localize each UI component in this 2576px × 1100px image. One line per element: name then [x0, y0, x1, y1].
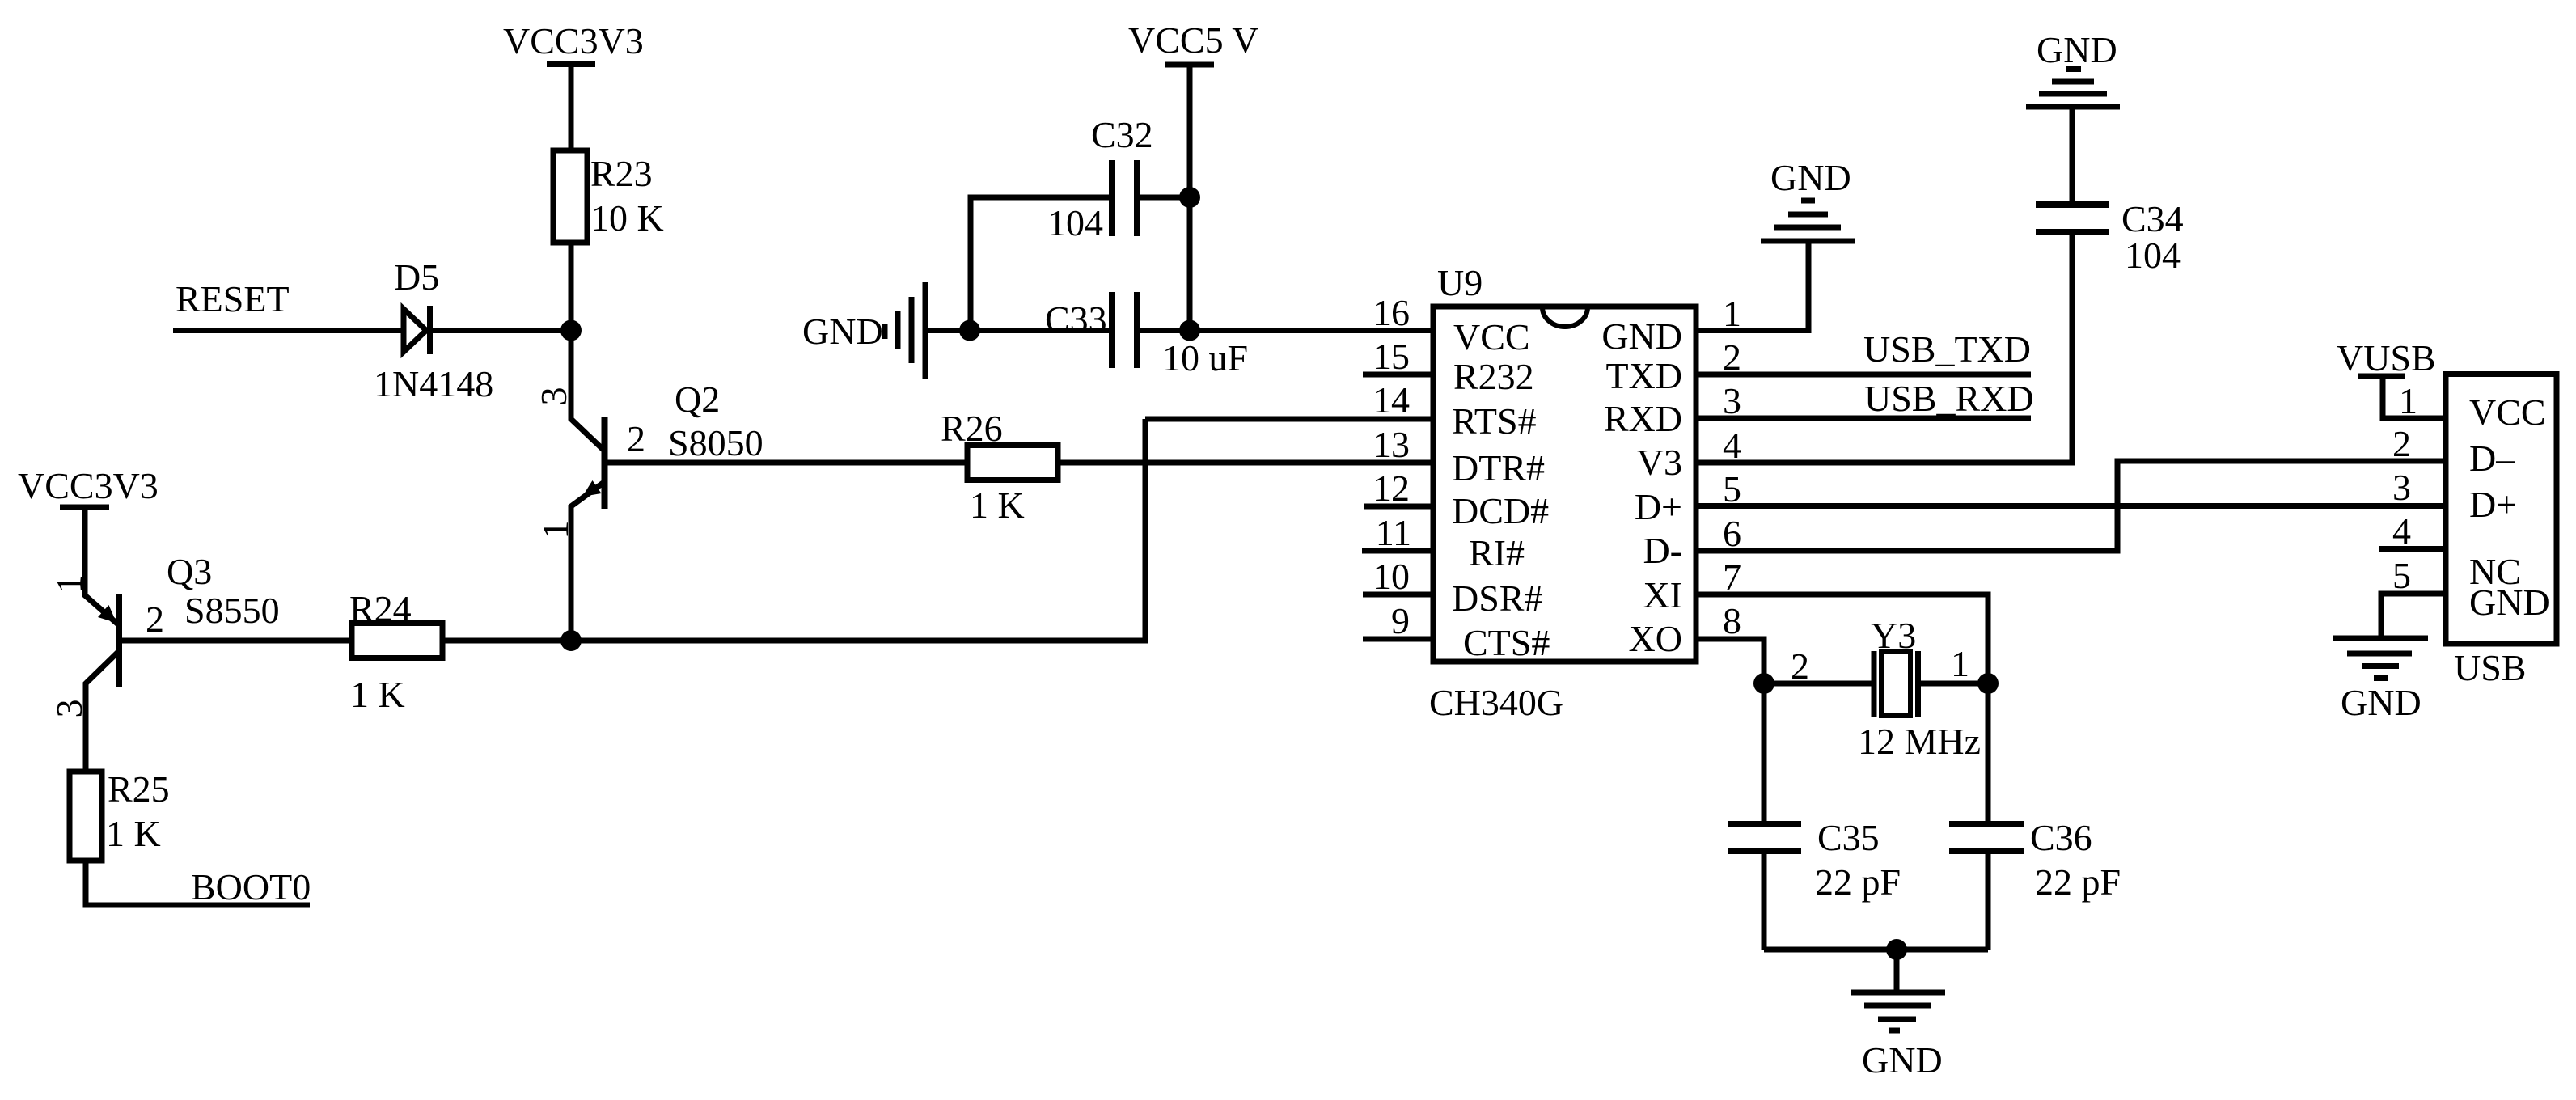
wire bottom rail: [1764, 947, 1988, 953]
wire C35 down: [1762, 851, 1767, 950]
wire GND to C33: [925, 328, 1110, 333]
capacitor C33 10 uF: [1045, 292, 1248, 379]
svg-text:VCC: VCC: [2469, 391, 2546, 433]
svg-text:1: 1: [2399, 380, 2417, 421]
pin 4 wire V3 to C34: [1696, 235, 2072, 463]
svg-text:USB_TXD: USB_TXD: [1863, 328, 2031, 370]
node XO/crystal junction: [1753, 673, 1774, 694]
wire VCC5V down: [1187, 65, 1193, 197]
svg-text:3: 3: [49, 700, 90, 718]
svg-text:R24: R24: [349, 588, 412, 629]
resistor R26 1 K: [941, 408, 1058, 526]
svg-text:GND: GND: [1862, 1039, 1943, 1081]
capacitor C32 104: [1047, 114, 1153, 243]
svg-text:D5: D5: [394, 256, 439, 298]
svg-text:USB: USB: [2454, 647, 2526, 688]
svg-text:RI#: RI#: [1469, 532, 1525, 573]
svg-text:U9: U9: [1437, 262, 1483, 303]
pin 4 stub NC: [2379, 546, 2443, 552]
power VCC3V3 (Q3): [18, 465, 159, 507]
svg-text:2: 2: [627, 418, 645, 459]
wire Q2 base to R26: [607, 460, 967, 466]
wire crystal right: [1921, 681, 1988, 687]
svg-text:GND: GND: [1770, 157, 1851, 198]
svg-text:CTS#: CTS#: [1463, 622, 1550, 663]
svg-text:BOOT0: BOOT0: [191, 866, 311, 907]
node GND/C32 junction: [959, 320, 980, 341]
svg-text:D–: D–: [2469, 438, 2515, 479]
svg-text:GND: GND: [2037, 29, 2117, 70]
svg-text:2: 2: [146, 599, 164, 640]
svg-text:13: 13: [1373, 424, 1410, 465]
diode D5 1N4148: [374, 256, 493, 404]
wire crystal left: [1764, 681, 1872, 687]
pin 2 wire TXD: [1696, 372, 2031, 378]
wire crystal to C36: [1986, 683, 1991, 824]
svg-text:R232: R232: [1453, 356, 1534, 397]
svg-text:GND: GND: [1601, 315, 1682, 357]
svg-text:8: 8: [1723, 600, 1741, 641]
ground GND (pin1): [1761, 157, 1855, 241]
svg-text:RXD: RXD: [1604, 398, 1682, 439]
svg-text:22 pF: 22 pF: [1815, 861, 1901, 903]
capacitor C35 22 pF: [1728, 817, 1901, 903]
svg-text:2: 2: [1723, 336, 1741, 378]
pin 6 wire D- to USB: [1696, 461, 2443, 551]
svg-text:10 uF: 10 uF: [1162, 337, 1248, 379]
pin 5 wire D+ to USB: [1696, 503, 2443, 509]
USB connector J: [2446, 374, 2557, 689]
resistor R25 1 K: [70, 768, 170, 861]
wire C32 right to junction: [1140, 195, 1190, 201]
svg-text:3: 3: [2392, 467, 2411, 508]
svg-text:XO: XO: [1629, 618, 1682, 659]
svg-text:16: 16: [1373, 292, 1410, 333]
power VCC3V3 (top): [503, 20, 644, 65]
pin 8 wire XO: [1696, 639, 1764, 683]
svg-text:R25: R25: [108, 768, 170, 810]
svg-text:XI: XI: [1643, 574, 1682, 616]
svg-text:104: 104: [1047, 202, 1103, 243]
svg-text:15: 15: [1373, 336, 1410, 377]
svg-text:TXD: TXD: [1605, 355, 1682, 396]
svg-text:3: 3: [1723, 380, 1741, 421]
transistor Q2 S8050: [533, 331, 763, 641]
svg-text:VCC5 V: VCC5 V: [1128, 19, 1258, 61]
wire crystal to C35: [1762, 683, 1767, 824]
ground GND (bottom): [1851, 992, 1945, 1081]
svg-text:1 K: 1 K: [350, 674, 405, 715]
node Q2 emitter / R24 junction: [560, 630, 582, 651]
resistor R24 1 K: [349, 588, 442, 715]
pin 11 stub: [1362, 548, 1433, 554]
pin 3 wire RXD: [1696, 416, 2031, 421]
svg-text:D-: D-: [1643, 530, 1682, 571]
svg-text:DSR#: DSR#: [1452, 577, 1542, 619]
svg-text:S8050: S8050: [668, 422, 763, 463]
wire C33 to pin16: [1140, 328, 1433, 333]
transistor Q3 S8550: [49, 507, 280, 772]
wire pin14 RTS#: [1145, 417, 1433, 422]
resistor R23 10 K: [553, 150, 664, 243]
svg-text:Q2: Q2: [675, 379, 720, 420]
svg-text:104: 104: [2125, 235, 2181, 276]
svg-text:1 K: 1 K: [106, 813, 161, 854]
ground GND (C34): [2026, 29, 2120, 107]
svg-text:D+: D+: [2469, 484, 2517, 525]
wire D5 to node: [433, 328, 571, 333]
svg-text:R23: R23: [590, 153, 653, 194]
svg-text:10 K: 10 K: [590, 197, 664, 239]
svg-text:DCD#: DCD#: [1452, 490, 1549, 531]
IC U9 CH340G: [1429, 262, 1696, 723]
svg-text:12 MHz: 12 MHz: [1858, 721, 1981, 762]
svg-text:9: 9: [1391, 600, 1410, 641]
svg-text:C34: C34: [2121, 198, 2184, 239]
node C33/VCC junction: [1179, 320, 1200, 341]
node C32 junction: [1179, 187, 1200, 208]
svg-text:DTR#: DTR#: [1452, 447, 1545, 489]
node RESET/D5/R23/Q2 junction: [560, 320, 582, 341]
pin 7 wire XI: [1696, 594, 1988, 683]
svg-text:14: 14: [1373, 379, 1410, 421]
svg-text:C35: C35: [1817, 817, 1880, 858]
svg-text:D+: D+: [1635, 486, 1682, 527]
svg-text:1: 1: [1951, 643, 1969, 684]
svg-text:Q3: Q3: [167, 551, 212, 592]
wire R25 to BOOT0: [86, 861, 310, 905]
svg-text:RESET: RESET: [176, 278, 290, 319]
wire junction down: [1187, 197, 1193, 331]
svg-text:1: 1: [535, 521, 576, 539]
power VUSB: [2337, 337, 2436, 379]
svg-text:GND: GND: [2341, 682, 2422, 723]
svg-text:2: 2: [2392, 423, 2411, 464]
svg-text:3: 3: [533, 387, 574, 406]
wire RESET to D5: [173, 328, 403, 333]
wire R24 to junction: [442, 638, 571, 644]
svg-text:10: 10: [1373, 556, 1410, 597]
svg-text:5: 5: [2392, 555, 2411, 596]
svg-text:VCC: VCC: [1453, 316, 1530, 357]
svg-text:C33: C33: [1045, 298, 1107, 340]
svg-text:GND: GND: [2469, 582, 2550, 623]
wire R26 to pin13 DTR#: [1058, 460, 1433, 466]
svg-text:1N4148: 1N4148: [374, 363, 493, 404]
pin 12 stub: [1364, 504, 1433, 510]
wire C36 down: [1986, 851, 1991, 950]
ground GND (USB): [2333, 638, 2428, 723]
pin 15 stub: [1363, 372, 1433, 378]
svg-text:7: 7: [1723, 556, 1741, 598]
node bottom GND junction: [1886, 939, 1907, 960]
svg-text:RTS#: RTS#: [1452, 400, 1537, 442]
svg-text:C32: C32: [1091, 114, 1153, 155]
svg-text:VCC3V3: VCC3V3: [18, 465, 159, 506]
svg-text:V3: V3: [1637, 442, 1682, 483]
svg-text:6: 6: [1723, 513, 1741, 554]
wire R23 to node: [569, 243, 574, 331]
power VCC5 V: [1128, 19, 1258, 65]
pin 5 wire GND: [2381, 594, 2443, 638]
svg-text:4: 4: [2392, 510, 2411, 552]
pin 9 stub: [1363, 637, 1433, 642]
svg-text:C36: C36: [2030, 817, 2092, 858]
wire junction to RTS# riser: [571, 419, 1145, 641]
svg-text:USB_RXD: USB_RXD: [1864, 378, 2034, 419]
wire Q3 base to R24: [122, 638, 353, 644]
wire VCC3V3 to R23: [569, 65, 574, 154]
svg-text:VUSB: VUSB: [2337, 337, 2436, 379]
capacitor C34 104: [2036, 198, 2184, 276]
svg-text:S8550: S8550: [184, 590, 280, 631]
svg-text:5: 5: [1723, 468, 1741, 510]
svg-text:1: 1: [49, 575, 90, 594]
wire C34 to GND: [2070, 107, 2075, 205]
svg-text:R26: R26: [941, 408, 1003, 449]
wire C32 left to GND branch: [971, 197, 1110, 331]
svg-text:1: 1: [1723, 293, 1741, 334]
svg-text:11: 11: [1376, 512, 1411, 553]
wire VUSB to USB pin1: [2383, 376, 2443, 418]
pin 1 wire GND: [1696, 241, 1808, 331]
node XI/crystal junction: [1977, 673, 1999, 694]
svg-text:4: 4: [1723, 425, 1741, 466]
ground GND (left of C33): [802, 282, 925, 379]
svg-text:1 K: 1 K: [970, 484, 1025, 526]
pin 10 stub: [1363, 592, 1433, 598]
wire to bottom GND: [1894, 950, 1900, 992]
svg-text:2: 2: [1791, 645, 1809, 687]
svg-text:12: 12: [1373, 467, 1410, 509]
svg-text:CH340G: CH340G: [1429, 682, 1563, 723]
svg-text:22 pF: 22 pF: [2035, 861, 2121, 903]
svg-text:Y3: Y3: [1871, 615, 1916, 656]
crystal Y3 12 MHz: [1791, 615, 1981, 762]
svg-text:GND: GND: [802, 311, 883, 352]
svg-text:VCC3V3: VCC3V3: [503, 20, 644, 61]
capacitor C36 22 pF: [1949, 817, 2121, 903]
